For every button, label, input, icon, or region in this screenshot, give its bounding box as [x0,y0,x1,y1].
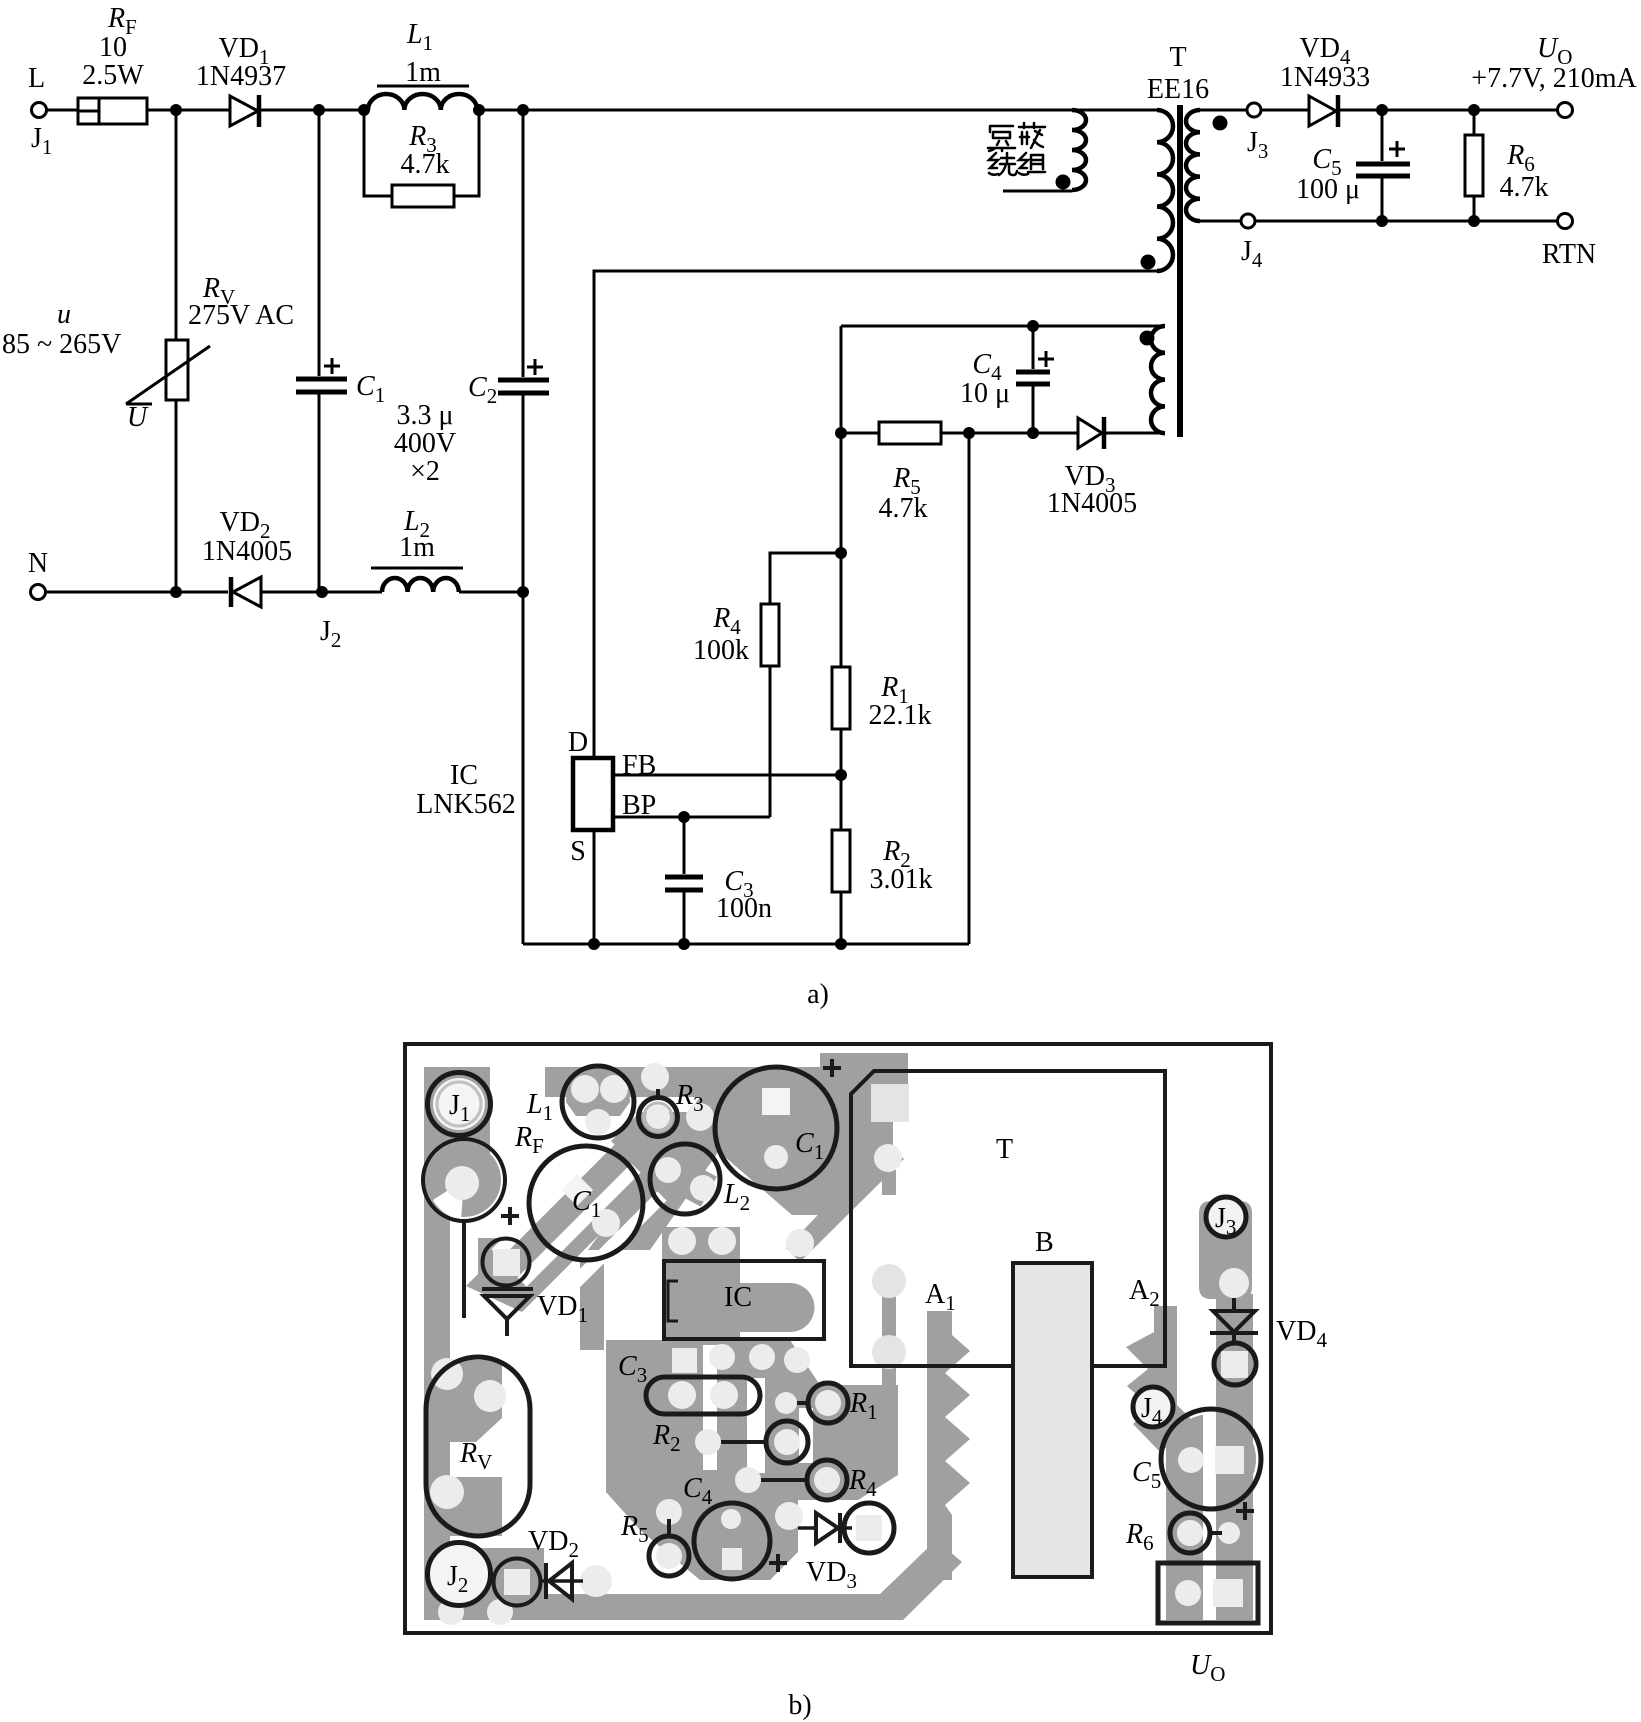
VD1 pad ring [483,1239,530,1286]
wire FB pin [613,774,841,777]
transformer primary winding [1141,110,1174,271]
node C3 top [678,811,690,823]
transformer aux (bias) winding [1140,326,1166,433]
node C4 top [1027,320,1039,332]
svg-text:3.3 μ: 3.3 μ [396,400,453,431]
copper: inside IC [666,1263,740,1337]
resistor R4 [693,553,841,817]
copper: J3 pad band [1199,1201,1252,1299]
feedback divider chain [840,326,843,667]
svg-text:+7.7V, 210mA: +7.7V, 210mA [1471,63,1637,94]
copper: T chamfer blob [820,1053,908,1084]
svg-text:U: U [127,402,149,433]
pad: VD4 square [1221,1351,1248,1378]
char zu [1019,153,1045,175]
PCB board outline [405,1044,1271,1633]
pad: R2 pad [695,1429,721,1455]
copper: J4 diagonal [1138,1392,1212,1466]
copper: top strip deep part [700,1067,908,1122]
pad: R6 inner [1177,1520,1203,1546]
pad: J1 inner [433,1078,485,1130]
copper: pads stubs inside T [882,1155,896,1385]
varistor RV [126,110,294,592]
pad: VD1 square [493,1249,520,1276]
wire S pin to bottom rail [593,830,596,944]
diode VD3 [1047,417,1165,519]
output bottom rail [1255,220,1557,223]
node R6 bottom [1468,215,1480,227]
label plus C4 [769,1554,787,1572]
char bi [1019,123,1045,148]
wire BP pin [613,816,770,819]
node L1 left [358,104,370,116]
pad: above-IC pads [668,1227,696,1255]
pad: L2 pads [655,1157,681,1183]
pad: C5 square [1215,1446,1244,1474]
svg-text:S: S [570,836,586,867]
resistor R1 [832,667,932,830]
pad: RV pads [431,1358,463,1390]
node C5 bottom [1376,215,1388,227]
wire J1 to VD1 area [462,1221,466,1318]
node R6 top [1468,104,1480,116]
diode VD4 [1280,33,1370,127]
svg-text:N: N [28,548,48,579]
L1 ring [562,1066,634,1138]
svg-text:2.5W: 2.5W [82,60,144,91]
node R5 right [963,427,975,439]
diode VD1 [196,33,286,127]
diode VD4 symbol [1210,1298,1258,1345]
wire L1 to transformer [479,109,1157,112]
R1 ring and wire [797,1383,848,1423]
copper: VD1 pad blob [478,1238,534,1290]
svg-text:100k: 100k [693,635,749,666]
diode VD2 symbol [540,1563,583,1599]
pad: R4 pad [735,1467,761,1493]
copper: behind J1 column [424,1067,490,1205]
copper: VD4 band [1216,1294,1253,1424]
svg-text:RTN: RTN [1542,239,1596,270]
varistor RV stadium [426,1357,530,1536]
aux winding top wire [841,325,1165,328]
IC LNK562 [416,727,656,867]
IC outline [664,1261,824,1339]
svg-text:4.7k: 4.7k [879,493,928,524]
svg-text:u: u [57,299,71,330]
capacitor C5 [1296,110,1410,221]
copper: outer ring left band [424,1205,450,1600]
resistor R6 [1465,110,1549,221]
copper: diagonal band through L2 [588,1089,762,1250]
diode VD1 symbol [482,1289,533,1336]
capacitor C4 [960,326,1054,433]
node S on rail [588,938,600,950]
wire right riser to aux winding return [968,433,971,944]
node FB junction [835,769,847,781]
node R5 left [835,427,847,439]
terminal J4 [1241,214,1263,272]
R3 ring with stub [639,1089,678,1137]
UO connector box [1158,1563,1258,1623]
svg-text:T: T [1169,42,1186,73]
svg-text:275V AC: 275V AC [188,300,294,331]
svg-text:4.7k: 4.7k [401,149,450,180]
capacitor C1 [296,110,385,592]
svg-text:EE16: EE16 [1147,74,1209,105]
svg-text:1m: 1m [405,57,441,88]
node R4 tap [835,547,847,559]
VD4 pad ring [1214,1343,1256,1385]
J4 ring [1133,1387,1173,1427]
wire J3 to VD4 [1261,109,1309,112]
pad: top row pads [641,1063,669,1091]
node R2 bottom rail [835,938,847,950]
resistor R5 [841,422,1078,524]
diode VD2 [202,507,292,607]
label plus left [501,1207,519,1225]
terminal RTN [1542,214,1596,271]
C1 center ring [529,1146,643,1260]
copper: RV top interior [432,1360,502,1442]
svg-text:22.1k: 22.1k [869,700,932,731]
svg-text:D: D [568,727,588,758]
pad: UO pads [1175,1580,1201,1606]
pad: bottom-left pads [438,1599,464,1625]
copper: vertical bar under C1 [580,1258,604,1350]
terminal J3 [1247,103,1268,163]
char rao [989,153,1017,175]
copper: chamfer wedge [851,1071,908,1122]
inductor L1 [368,19,477,110]
terminal N [28,548,48,600]
svg-text:10 μ: 10 μ [960,378,1010,409]
C5 ring [1161,1409,1261,1509]
J1 lower ring [423,1139,505,1221]
node J2 [316,586,341,652]
svg-text:IC: IC [450,760,478,791]
node C1 tap [313,104,325,116]
pad: R1 stub pad [775,1392,797,1414]
J2 pad ring [494,1559,541,1606]
transformer T outline [851,1071,1165,1366]
pad: C1 top-right square [762,1088,790,1115]
svg-text:×2: ×2 [410,456,440,487]
pad: T big square [871,1084,909,1122]
node C2 tap [517,104,529,116]
svg-text:1N4005: 1N4005 [1047,488,1137,519]
copper: above IC pads strip [662,1227,740,1262]
J3 ring [1206,1197,1246,1237]
capacitor C3 [665,817,772,944]
copper: C5 interior [1166,1414,1256,1504]
node after RF [170,104,182,116]
pad: L1 pads [571,1075,599,1103]
C4 ring [694,1503,770,1579]
resistor R3 (parallel with L1) [364,110,479,207]
R4 ring and wire [761,1460,847,1500]
pad: VD2 right pad [580,1565,612,1597]
svg-text:b): b) [788,1690,811,1721]
copper: diagonal into T with pads [786,1144,904,1262]
pad: below J1 [427,1143,501,1217]
bottom rail [523,943,969,946]
pad: C1 center diamond [561,1174,593,1206]
IC pin1 bracket [668,1281,678,1321]
copper: outer ring bottom band [424,1540,962,1620]
diode VD3 symbol [798,1513,852,1543]
pad: C5 round [1178,1447,1204,1473]
svg-text:100 μ: 100 μ [1296,174,1360,205]
svg-text:3.01k: 3.01k [870,864,933,895]
pad: VD2 square [504,1569,530,1595]
shield winding label (Chinese: ping bi rao zu) [988,123,1045,175]
svg-text:85 ~ 265V: 85 ~ 265V [2,329,121,360]
L2 ring [650,1144,720,1214]
capacitor C2 [468,110,549,592]
copper: behind J2 / VD2 [424,1548,544,1605]
copper: RV bottom interior [430,1477,502,1536]
wire C2 node down to bottom rail [522,592,525,944]
VD3 right pad ring [844,1503,894,1553]
R2 ring and wire [721,1421,808,1463]
terminal L / J1 [28,63,52,159]
wire D pin up and over to primary [594,271,1157,758]
wire J1 to RF [47,109,79,112]
svg-text:10: 10 [99,32,127,63]
resistor R2 [832,830,933,944]
transformer core [1177,105,1183,437]
copper: top strip [545,1067,908,1097]
wire VD2 to L2 [261,591,382,594]
terminal UO [1471,33,1637,118]
pad: T col pads [872,1264,906,1298]
pad: T diag round [874,1144,902,1172]
pad: C1 center round [592,1209,620,1237]
svg-text:1N4933: 1N4933 [1280,62,1370,93]
svg-text:T: T [996,1134,1013,1165]
inductor L2 [371,506,463,592]
wire RF to VD1 [147,109,230,112]
copper: C5-UO right band [1216,1390,1253,1620]
pad: R3 inner [646,1105,670,1129]
J1 ring [428,1073,491,1136]
copper: A1 zigzag column [927,1311,970,1580]
svg-text:L: L [28,63,45,94]
node C2 bottom [517,586,529,598]
R6 ring and stub [1170,1513,1222,1553]
label plus top [823,1059,841,1077]
svg-text:1N4937: 1N4937 [196,61,286,92]
wire N to VD2 [46,591,229,594]
output top rail [1340,109,1557,112]
copper: white slits over copper [470,1140,662,1310]
J2 ring [428,1543,491,1606]
svg-text:1m: 1m [399,532,435,563]
pad: near VD3 [775,1502,803,1530]
node RV bottom [170,586,182,598]
pad: C4 pads [721,1509,741,1529]
wire L2 to C2 node [459,591,523,594]
copper: diagonal RF band [466,1112,694,1312]
copper: blob under C1 top-right [717,1122,893,1215]
pad: island top pads [672,1348,697,1373]
svg-text:100n: 100n [716,893,772,924]
svg-text:LNK562: LNK562 [416,789,516,820]
wire VD1 to L1 [261,109,368,112]
value label 3.3u 400V x2 [394,400,456,487]
pad: R6 right pad [1218,1522,1240,1544]
node C5 top [1376,104,1388,116]
copper: inside L2 ring [653,1151,717,1206]
fuse resistor RF [78,3,147,124]
copper: inside L1 ring [566,1070,630,1116]
node L1 right [473,104,485,116]
transformer T EE16 labels [1147,42,1209,105]
input voltage label u 85~265V [2,299,121,360]
char ping [988,126,1015,151]
pad: J3 stub pad [1219,1268,1249,1298]
svg-text:a): a) [807,979,829,1010]
pad: R5 top pad [656,1499,682,1525]
label plus C5 [1236,1502,1254,1520]
copper: C5-UO left band [1166,1424,1203,1620]
svg-text:1N4005: 1N4005 [202,536,292,567]
svg-text:B: B [1035,1227,1054,1258]
transformer secondary winding [1186,110,1247,221]
R5 ring and stub [649,1519,689,1576]
svg-text:400V: 400V [394,428,456,459]
pad: C3 pads [668,1381,696,1409]
shield winding [1003,110,1086,191]
bobbin B [1013,1263,1092,1577]
C1 top-right ring [715,1067,837,1189]
copper: A2 zigzag column [1126,1306,1177,1452]
copper: central island [606,1340,898,1580]
svg-text:4.7k: 4.7k [1500,172,1549,203]
C3 stadium outline [646,1377,760,1414]
node C3 bottom rail [678,938,690,950]
svg-text:IC: IC [724,1282,752,1313]
pad: C1 top-right round [764,1145,788,1169]
node C4 bottom [1027,427,1039,439]
